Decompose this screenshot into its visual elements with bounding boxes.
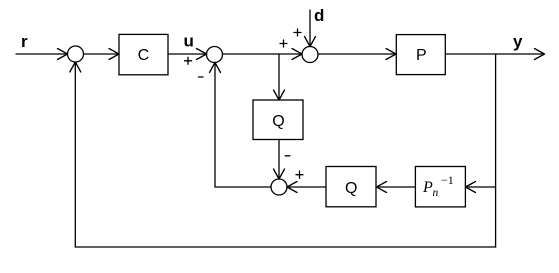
svg-text:Q: Q [272,113,284,130]
svg-text:n: n [433,187,439,199]
wire S3 to P [318,53,394,55]
plus sign at S4 right input [296,171,303,178]
svg-text:P: P [422,179,433,196]
wire Q2 to S4 [290,186,327,188]
arrowhead into Pn inverse [466,182,476,193]
arrowhead into summing junction S2 [197,49,207,60]
svg-text:C: C [138,47,150,64]
block Q1 [253,100,303,140]
arrowhead Q1 into S4 [274,169,285,179]
svg-text:P: P [416,47,427,64]
svg-text:y: y [513,32,523,51]
arrowhead outer feedback into S1 [70,62,81,72]
arrowhead into block C [109,49,119,60]
wire inner feedback S4 to S2 [215,64,271,187]
summing junction S1 [68,46,84,62]
arrowhead into block P [386,49,396,60]
summing junction S3 [302,47,318,63]
svg-text:−1: −1 [441,173,454,187]
wire branch from main line down to Q1 [278,54,280,98]
minus sign at S4 top input [285,155,290,157]
wire P to output y [446,53,543,55]
arrowhead d into S3 [305,37,316,47]
minus sign at S2 bottom input [199,76,204,78]
wire outer feedback bottom [75,64,495,247]
block C [119,34,168,74]
wire Pn inverse to Q2 [379,186,416,188]
arrowhead into summing junction S1 [58,49,68,60]
summing junction S2 [207,47,223,63]
svg-text:r: r [21,32,28,51]
wire S1 to C [84,53,118,55]
arrowhead into block Q2 [377,182,387,193]
arrowhead inner feedback into S2 [210,63,221,73]
arrowhead into summing junction S4 [287,182,297,193]
wire Q1 to S4 [278,140,280,178]
wire to Pn inverse block [468,186,496,188]
plus sign at S3 top input [294,29,301,36]
wire r input [16,53,66,55]
wire d input [309,10,311,45]
plus sign at S2 left input [185,57,192,64]
block P [396,35,445,75]
arrowhead into summing junction S3 [292,49,302,60]
plus sign at S3 left input [280,40,287,47]
svg-text:Q: Q [345,180,357,197]
wire output branch down [495,54,497,247]
summing junction S4 [271,179,287,195]
svg-text:d: d [314,6,324,25]
arrowhead into block Q1 [274,90,285,100]
block Pn inverse [415,167,465,207]
block Q2 [326,167,376,207]
wire S2 to S3 [223,53,301,55]
arrowhead output y [535,49,545,60]
svg-text:u: u [184,32,194,51]
wire C to S2 [168,53,205,55]
